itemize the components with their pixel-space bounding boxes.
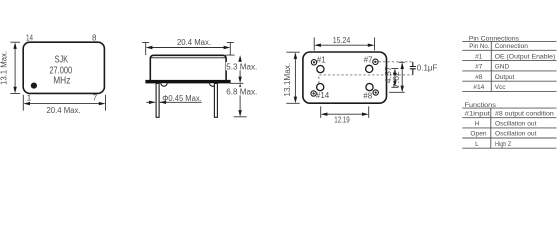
pin #7 (with index dot) — [373, 59, 378, 64]
svg-text:1: 1 — [27, 93, 32, 102]
svg-text:Open: Open — [470, 131, 486, 138]
svg-text:L: L — [475, 141, 479, 148]
standoff circle bottom-left — [317, 84, 324, 91]
svg-text:#1: #1 — [317, 55, 326, 64]
capacitor C1 0.1uF symbol — [410, 62, 416, 75]
standoff circle bottom-right — [366, 84, 373, 91]
svg-text:15.24: 15.24 — [333, 36, 351, 45]
svg-text:5.3 Max.: 5.3 Max. — [226, 62, 257, 71]
oscillator can body side view — [150, 55, 226, 80]
base plate — [145, 80, 230, 84]
svg-text:#1input: #1input — [465, 110, 490, 117]
package outline bottom view — [303, 52, 387, 103]
dashed leader from pin 14 to capacitor — [319, 75, 413, 83]
pin #8 (with index dot) — [373, 90, 378, 95]
dimension 6.8 Max (lead length) — [226, 83, 263, 116]
svg-text:Connection: Connection — [495, 43, 529, 50]
svg-text:Oscillation out: Oscillation out — [495, 131, 537, 138]
table rules — [462, 108, 556, 148]
dimension 13.1 Max (bottom view height) — [283, 52, 300, 103]
svg-text:20.4 Max.: 20.4 Max. — [177, 38, 211, 47]
table rules — [462, 41, 556, 91]
pin 1 index dot — [31, 83, 37, 89]
svg-text:7: 7 — [93, 93, 98, 102]
dimension 13.1 Max (left view height) — [0, 42, 20, 93]
dimension 15.24 (pin span horizontal) — [314, 36, 374, 50]
standoff circle top-left — [317, 66, 324, 73]
svg-text:#14: #14 — [473, 84, 484, 91]
dimension 12.19 (standoff span horizontal) — [321, 106, 369, 124]
dimension lead diameter 0.45 callout — [146, 94, 202, 104]
svg-text:#8: #8 — [475, 74, 483, 81]
svg-text:High Z: High Z — [495, 141, 511, 148]
svg-text:12.19: 12.19 — [334, 116, 350, 125]
svg-text:7.62: 7.62 — [392, 71, 401, 89]
svg-text:Oscillation out: Oscillation out — [495, 121, 537, 128]
svg-text:H: H — [475, 121, 480, 128]
svg-text:13.1Max.: 13.1Max. — [283, 63, 292, 97]
pin #14 (with index dot) — [311, 91, 316, 96]
svg-text:14: 14 — [26, 33, 33, 42]
lead left — [156, 83, 159, 117]
package outline top view — [23, 42, 104, 93]
standoff bump left — [161, 83, 167, 86]
svg-text:Φ0.45 Max.: Φ0.45 Max. — [162, 94, 202, 103]
svg-text:#1: #1 — [475, 53, 483, 60]
dimension 4.57 (standoff span vertical) — [384, 66, 399, 88]
svg-text:MHz: MHz — [53, 75, 70, 86]
dimension 20.4 Max (left view width) — [23, 95, 105, 115]
svg-text:0.1μF: 0.1μF — [417, 63, 438, 72]
svg-text:20.4 Max.: 20.4 Max. — [47, 106, 81, 115]
standoff circle top-right — [366, 65, 373, 72]
lead right — [214, 83, 217, 117]
svg-text:GND: GND — [495, 64, 510, 71]
dimension 20.4 Max (side view width) — [142, 38, 234, 55]
svg-text:SJK: SJK — [55, 55, 69, 66]
svg-text:13.1 Max.: 13.1 Max. — [0, 51, 9, 85]
dimension 5.3 Max (can height) — [225, 55, 263, 83]
svg-text:#14: #14 — [316, 91, 330, 100]
dimension 7.62 (pin span vertical) — [389, 62, 405, 92]
svg-text:Pin No.: Pin No. — [469, 43, 489, 50]
pin #1 (with index dot) — [311, 60, 316, 65]
svg-text:Vcc: Vcc — [495, 84, 507, 91]
can lid seam line — [150, 57, 226, 59]
svg-text:#7: #7 — [364, 56, 373, 65]
svg-text:Output: Output — [495, 74, 515, 81]
dashed leader from pin 7 to capacitor — [379, 61, 413, 63]
svg-text:#8 output condition: #8 output condition — [495, 110, 554, 117]
svg-text:8: 8 — [92, 33, 97, 42]
standoff bump right — [210, 83, 216, 86]
svg-text:6.8 Max.: 6.8 Max. — [226, 87, 257, 96]
svg-text:OE (Output Enable): OE (Output Enable) — [495, 53, 556, 60]
svg-text:#8: #8 — [363, 92, 372, 101]
svg-text:#7: #7 — [475, 64, 483, 71]
